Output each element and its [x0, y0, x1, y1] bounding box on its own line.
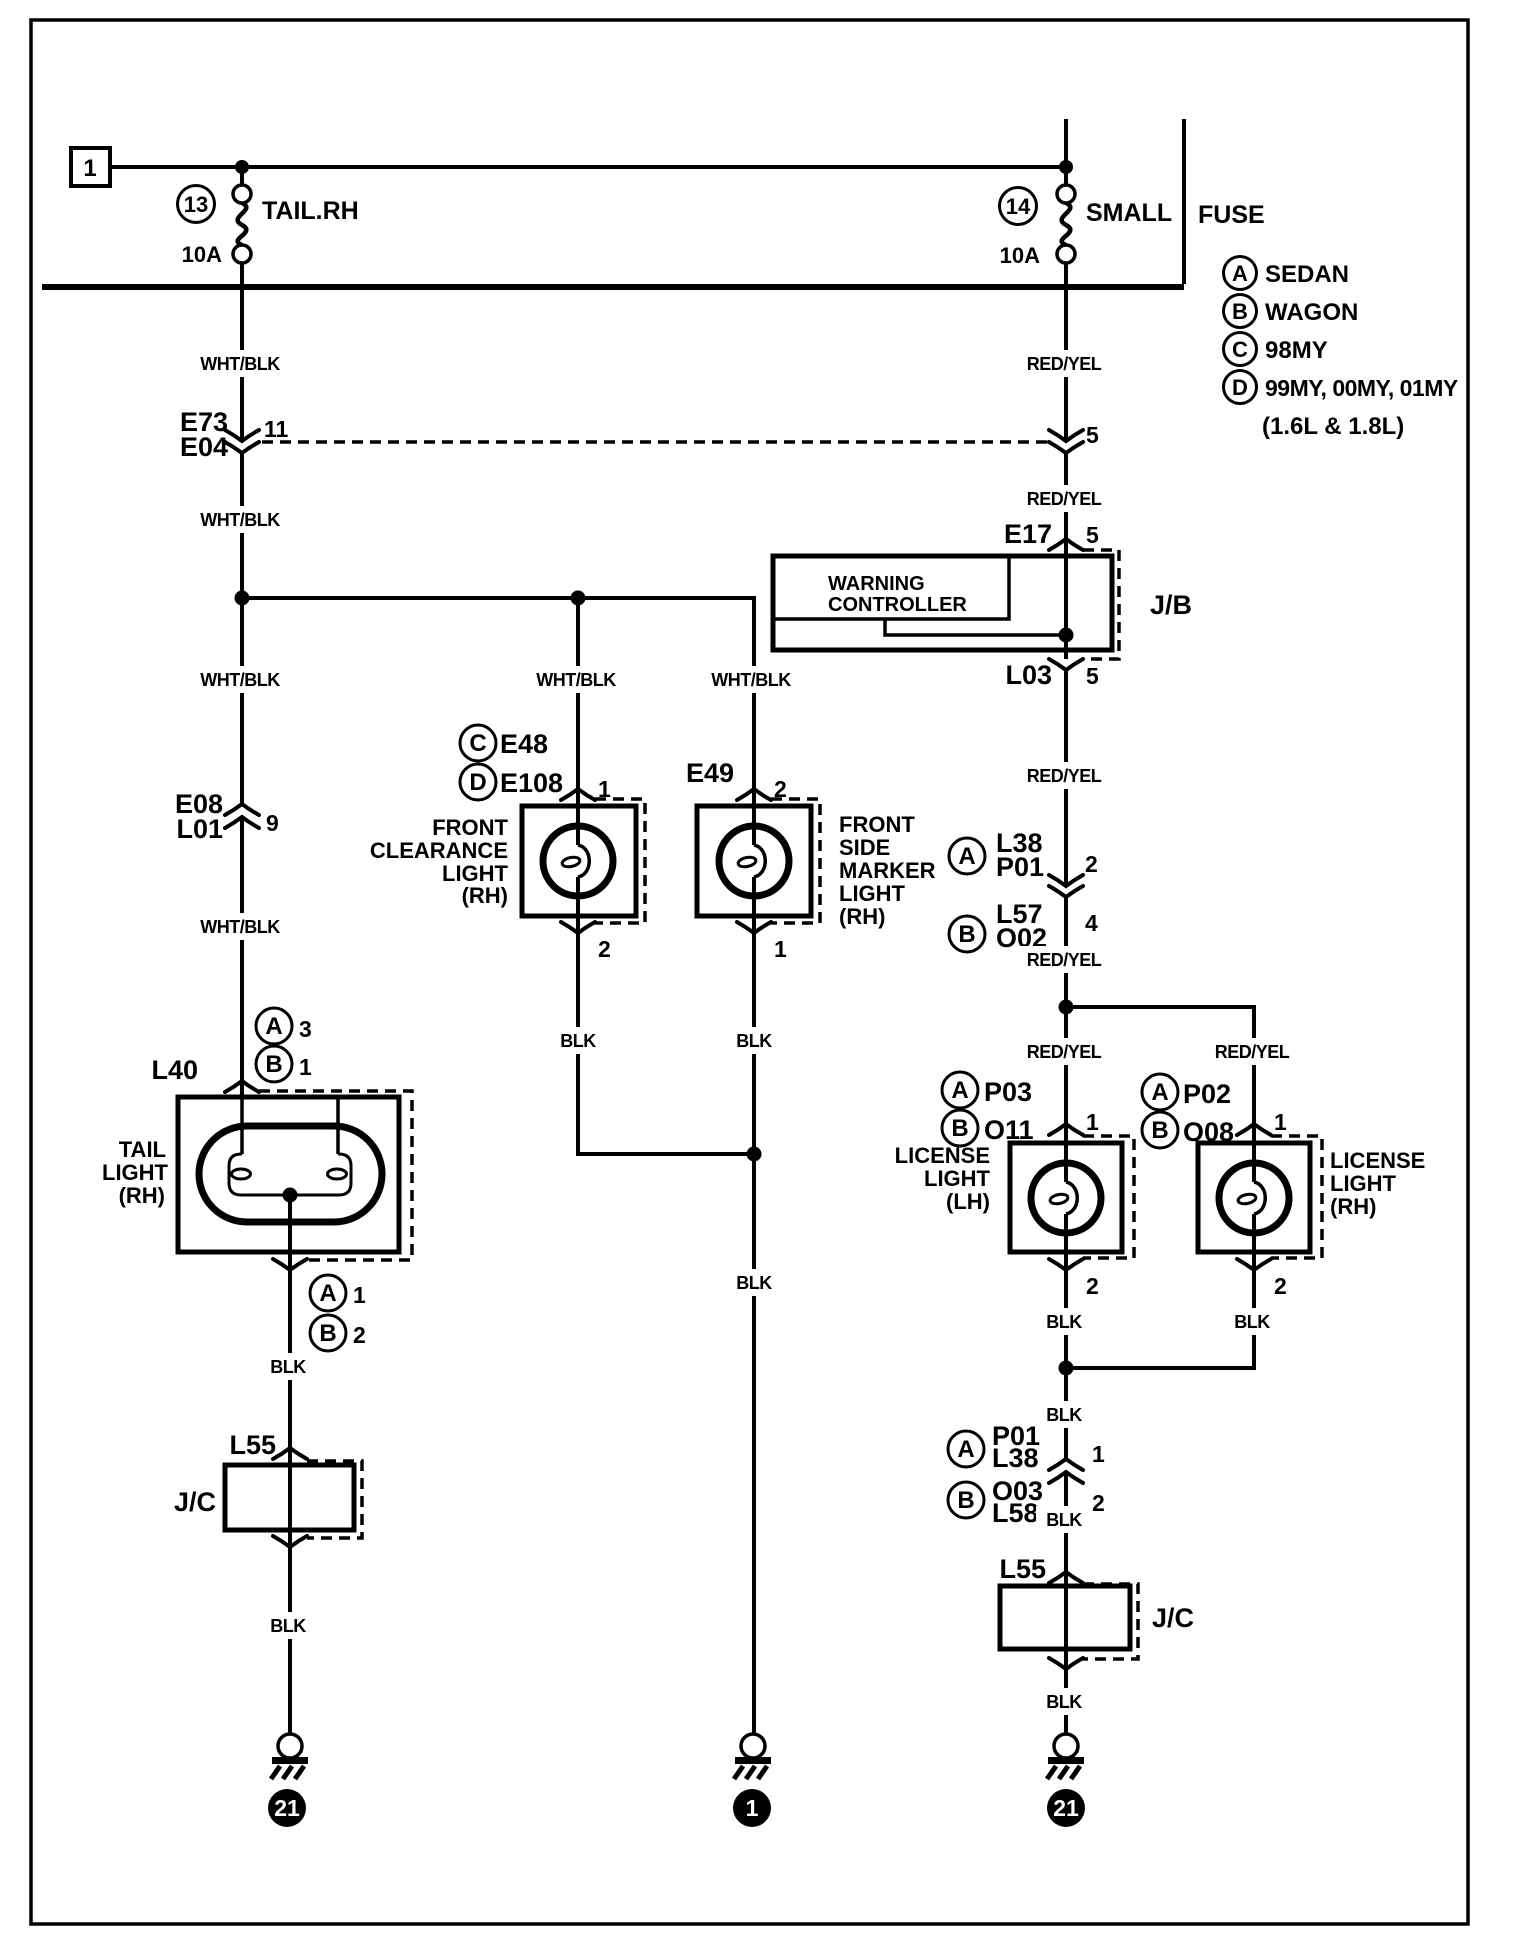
front clearance light (RH) housing [522, 806, 636, 916]
svg-text:5: 5 [1086, 663, 1099, 689]
svg-text:L55: L55 [999, 1554, 1046, 1584]
svg-text:BLK: BLK [270, 1357, 306, 1377]
svg-text:SIDE: SIDE [839, 835, 890, 860]
svg-text:BLK: BLK [1234, 1312, 1270, 1332]
wire: to front side marker light [752, 661, 756, 845]
fuse 13 TAIL.RH 10A [240, 167, 244, 185]
legend C 98MY [1224, 333, 1257, 366]
svg-text:SEDAN: SEDAN [1265, 261, 1349, 288]
bulb pin 1 [240, 1097, 244, 1154]
svg-text:J/C: J/C [1152, 1603, 1194, 1633]
svg-text:RED/YEL: RED/YEL [1027, 354, 1102, 374]
fuse box bus bar [42, 284, 1184, 290]
svg-text:2: 2 [1092, 1490, 1105, 1516]
svg-text:FRONT: FRONT [839, 812, 915, 837]
svg-text:L40: L40 [151, 1055, 198, 1085]
svg-text:LICENSE: LICENSE [1330, 1148, 1425, 1173]
svg-text:C: C [469, 730, 486, 757]
wire color label WHT/BLK [708, 666, 794, 693]
wire color label BLK [1224, 1308, 1280, 1335]
wire color label WHT/BLK [197, 913, 283, 940]
svg-text:D: D [1232, 375, 1248, 400]
wire: stub above fuse 14 [1064, 119, 1068, 167]
license light RH bulb [1219, 1163, 1289, 1233]
wire color label WHT/BLK [197, 666, 283, 693]
svg-text:FUSE: FUSE [1198, 201, 1265, 229]
svg-text:J/C: J/C [174, 1487, 216, 1517]
junction: license lights split [1059, 1000, 1074, 1015]
bulb pin 2 [336, 1097, 340, 1154]
svg-text:1: 1 [1086, 1109, 1099, 1135]
svg-text:5: 5 [1086, 422, 1099, 448]
svg-text:1: 1 [299, 1054, 312, 1080]
wire color label WHT/BLK [197, 350, 283, 377]
wire: joined license grounds, BLK [1064, 1368, 1068, 1459]
svg-text:B: B [319, 1320, 336, 1347]
svg-text:(1.6L & 1.8L): (1.6L & 1.8L) [1262, 413, 1404, 440]
wire: J/C to ground, BLK [288, 1547, 292, 1734]
svg-text:B: B [957, 1487, 974, 1514]
joint connector J/C (left) [225, 1465, 354, 1530]
svg-text:P01: P01 [996, 852, 1044, 882]
svg-text:WAGON: WAGON [1265, 299, 1358, 326]
ground id 1 [733, 1789, 771, 1827]
wire: right J/C to ground, BLK [1064, 1669, 1068, 1734]
svg-text:RED/YEL: RED/YEL [1027, 1042, 1102, 1062]
svg-text:B: B [265, 1051, 282, 1078]
svg-text:A: A [265, 1013, 282, 1040]
svg-text:LIGHT: LIGHT [924, 1166, 991, 1191]
svg-text:1: 1 [746, 1795, 759, 1821]
svg-text:WHT/BLK: WHT/BLK [200, 917, 280, 937]
svg-text:C: C [1232, 337, 1248, 362]
ground id 21 (right) [1047, 1789, 1085, 1827]
svg-text:BLK: BLK [1046, 1510, 1082, 1530]
svg-text:CLEARANCE: CLEARANCE [370, 838, 508, 863]
wire: to license light branch, RED/YEL [1064, 897, 1068, 1182]
bulb filament body [229, 1154, 351, 1195]
svg-text:9: 9 [266, 810, 279, 836]
svg-text:BLK: BLK [1046, 1312, 1082, 1332]
wire: clearance light to ground join, BLK [578, 933, 754, 1154]
svg-text:3: 3 [299, 1016, 312, 1042]
wire: fuse13 to connector E73/E04, WHT/BLK [240, 287, 244, 440]
node 1 (power feed box) [71, 148, 110, 186]
svg-text:2: 2 [1274, 1273, 1287, 1299]
license RH pin 2 [1252, 1214, 1256, 1270]
wire: branch to front clearance light, WHT/BLK [576, 598, 580, 845]
svg-text:P03: P03 [984, 1077, 1032, 1107]
svg-text:(RH): (RH) [1330, 1194, 1376, 1219]
svg-text:D: D [469, 769, 486, 796]
svg-text:BLK: BLK [736, 1273, 772, 1293]
svg-text:1: 1 [353, 1282, 366, 1308]
svg-text:10A: 10A [182, 242, 222, 267]
connector E08/L01 pin 9 [225, 804, 259, 815]
svg-text:LICENSE: LICENSE [895, 1143, 990, 1168]
svg-text:SMALL: SMALL [1086, 199, 1172, 227]
svg-text:RED/YEL: RED/YEL [1215, 1042, 1290, 1062]
wire color label RED/YEL [1021, 350, 1107, 377]
wire color label BLK [726, 1027, 782, 1054]
pin variant A1 [310, 1275, 346, 1311]
wire color label BLK [1036, 1308, 1092, 1335]
license light (RH) housing [1198, 1143, 1310, 1252]
connector E73/E04 pin 11 [225, 430, 259, 441]
svg-text:TAIL.RH: TAIL.RH [262, 197, 359, 225]
wire: L03 to L38/P01, RED/YEL [1064, 670, 1068, 886]
svg-text:L55: L55 [229, 1430, 276, 1460]
svg-text:1: 1 [1274, 1109, 1287, 1135]
svg-text:FRONT: FRONT [432, 815, 508, 840]
J/B dashed boundary [1083, 550, 1119, 659]
junction: tail light column branch [235, 591, 250, 606]
svg-text:LIGHT: LIGHT [839, 881, 906, 906]
legend A SEDAN [1224, 257, 1257, 290]
svg-text:LIGHT: LIGHT [1330, 1171, 1397, 1196]
wire through right J/C [1064, 1572, 1068, 1669]
svg-text:2: 2 [1085, 851, 1098, 877]
wire color label RED/YEL [1021, 1038, 1107, 1065]
svg-text:LIGHT: LIGHT [102, 1160, 169, 1185]
clearance light pin 1 [561, 789, 595, 800]
wire: branch to license light RH [1066, 1007, 1254, 1182]
svg-text:(LH): (LH) [946, 1189, 990, 1214]
connector E108 (99-01MY) [460, 764, 496, 800]
wire: fuse14 down, RED/YEL [1064, 287, 1068, 441]
wire: E08/L01 to tail light, WHT/BLK [240, 817, 244, 1097]
ground id 21 [268, 1789, 306, 1827]
connector A:P02 B:O08 pin 1 (license RH) [1142, 1074, 1178, 1110]
svg-text:CONTROLLER: CONTROLLER [828, 594, 967, 616]
tail light dual-filament bulb [199, 1126, 382, 1222]
svg-text:E48: E48 [500, 729, 548, 759]
junction: clearance light tap [571, 591, 586, 606]
connector A:P03 B:O11 pin 1 (license LH) [942, 1072, 978, 1108]
wire color label BLK [550, 1027, 606, 1054]
junction at fuse 14 tap [1059, 160, 1073, 174]
wire: bulb common out of housing [288, 1195, 292, 1270]
svg-text:1: 1 [83, 155, 96, 182]
svg-text:BLK: BLK [270, 1616, 306, 1636]
svg-text:21: 21 [1053, 1795, 1079, 1821]
ground (license circuit) [1054, 1734, 1078, 1758]
svg-text:E04: E04 [180, 432, 228, 462]
svg-text:2: 2 [353, 1322, 366, 1348]
junction box J/B [773, 556, 1112, 650]
wire color label RED/YEL [1021, 946, 1107, 973]
wire: branch to front lights columns [242, 598, 754, 661]
svg-text:1: 1 [1092, 1441, 1105, 1467]
svg-text:21: 21 [274, 1795, 300, 1821]
warning controller block [773, 556, 1009, 619]
svg-text:99MY, 00MY, 01MY: 99MY, 00MY, 01MY [1265, 375, 1458, 401]
svg-text:B: B [958, 921, 975, 948]
svg-text:A: A [958, 843, 975, 870]
wire: to L55 J/C, BLK [1064, 1473, 1068, 1572]
license light (LH) housing [1010, 1143, 1122, 1252]
wire: feed bus from node 1 to fuse 14 [110, 165, 1066, 169]
svg-text:P02: P02 [1183, 1079, 1231, 1109]
svg-text:WHT/BLK: WHT/BLK [536, 670, 616, 690]
svg-text:WHT/BLK: WHT/BLK [200, 670, 280, 690]
wire: license LH to join, BLK [1064, 1270, 1068, 1459]
svg-text:E17: E17 [1004, 519, 1052, 549]
svg-text:L58: L58 [992, 1498, 1039, 1528]
svg-text:A: A [951, 1077, 968, 1104]
fuse box bracket [1182, 119, 1186, 284]
tail light output pin chevron [273, 1259, 307, 1270]
svg-text:(RH): (RH) [119, 1183, 165, 1208]
wire: side marker to ground, BLK [752, 933, 756, 1734]
junction inside J/B [1059, 628, 1074, 643]
ground (tail light circuit) [278, 1734, 302, 1758]
svg-text:WHT/BLK: WHT/BLK [200, 510, 280, 530]
wire color label BLK [1036, 1401, 1092, 1428]
svg-text:RED/YEL: RED/YEL [1027, 950, 1102, 970]
dashed harness tie line E73/E04 to right connector [262, 440, 1048, 444]
svg-text:14: 14 [1006, 194, 1031, 219]
svg-text:4: 4 [1085, 910, 1098, 936]
svg-text:B: B [951, 1115, 968, 1142]
pin variant B2 [310, 1315, 346, 1351]
junction: license grounds join [1059, 1361, 1074, 1376]
svg-text:TAIL: TAIL [119, 1137, 166, 1162]
license light LH bulb [1031, 1163, 1101, 1233]
wire color label RED/YEL [1209, 1038, 1295, 1065]
wire through J/C [288, 1448, 292, 1547]
svg-text:BLK: BLK [1046, 1405, 1082, 1425]
svg-text:RED/YEL: RED/YEL [1027, 766, 1102, 786]
svg-text:MARKER: MARKER [839, 858, 936, 883]
svg-text:1: 1 [774, 936, 787, 962]
svg-text:2: 2 [1086, 1273, 1099, 1299]
svg-text:10A: 10A [1000, 243, 1040, 268]
connector (E73/E04) pin 5 right side [1049, 430, 1083, 441]
bulb common junction [283, 1188, 298, 1203]
svg-text:98MY: 98MY [1265, 337, 1328, 364]
wire: license RH to join, BLK [1066, 1270, 1254, 1368]
ground (front lights) [741, 1734, 765, 1758]
svg-text:WARNING: WARNING [828, 573, 925, 595]
side marker pin 1 [752, 877, 756, 933]
svg-text:B: B [1151, 1117, 1168, 1144]
svg-text:A: A [319, 1280, 336, 1307]
tail light (RH) housing [178, 1097, 399, 1252]
svg-text:2: 2 [598, 936, 611, 962]
wire color label WHT/BLK [197, 506, 283, 533]
svg-text:13: 13 [184, 192, 208, 217]
wire: E73/E04 to branch node, WHT/BLK [240, 453, 244, 598]
svg-text:A: A [1151, 1079, 1168, 1106]
wire: to J/B E17, RED/YEL [1064, 453, 1068, 659]
wire color label BLK [260, 1353, 316, 1380]
connector A:L38/P01 pin2, B:L57/O02 pin4 [949, 838, 985, 874]
svg-text:J/B: J/B [1150, 590, 1192, 620]
junction at fuse 13 tap [235, 160, 249, 174]
svg-text:A: A [1232, 261, 1248, 286]
svg-text:WHT/BLK: WHT/BLK [200, 354, 280, 374]
connector A:P01/L38 pin1, B:O03/L58 pin2 [948, 1431, 984, 1467]
svg-text:WHT/BLK: WHT/BLK [711, 670, 791, 690]
clearance light pin 2 [576, 877, 580, 933]
legend D 99MY [1224, 371, 1257, 404]
front side marker light (RH) housing [697, 806, 811, 916]
junction: clearance + side marker grounds [747, 1147, 762, 1162]
connector E48 (98MY) [460, 725, 496, 761]
wire color label WHT/BLK [533, 666, 619, 693]
svg-text:A: A [957, 1436, 974, 1463]
svg-text:11: 11 [264, 416, 289, 442]
svg-text:RED/YEL: RED/YEL [1027, 489, 1102, 509]
pin variant A3 (sedan) [256, 1008, 292, 1044]
wire color label BLK [1036, 1506, 1092, 1533]
svg-text:5: 5 [1086, 522, 1099, 548]
front clearance light bulb [543, 826, 613, 896]
svg-text:(RH): (RH) [839, 904, 885, 929]
wire: branch node down to connector E08/L01, WHT/BLK [240, 598, 244, 804]
svg-text:BLK: BLK [560, 1031, 596, 1051]
svg-text:BLK: BLK [1046, 1692, 1082, 1712]
license LH pin 2 [1064, 1214, 1068, 1270]
wire color label BLK [1036, 1688, 1092, 1715]
wire color label RED/YEL [1021, 762, 1107, 789]
svg-text:BLK: BLK [736, 1031, 772, 1051]
front side marker light bulb [719, 826, 789, 896]
svg-text:L01: L01 [176, 814, 223, 844]
svg-text:(RH): (RH) [462, 883, 508, 908]
svg-text:L03: L03 [1005, 660, 1052, 690]
svg-text:L38: L38 [992, 1443, 1039, 1473]
wire: warning controller tap inside J/B [885, 619, 1060, 635]
svg-text:E108: E108 [500, 768, 563, 798]
wire: tail light to J/C L55, BLK [288, 1270, 292, 1448]
svg-text:B: B [1232, 299, 1248, 324]
wire color label BLK [260, 1612, 316, 1639]
fuse 14 SMALL 10A [1064, 167, 1068, 185]
svg-text:E49: E49 [686, 758, 734, 788]
wire color label RED/YEL [1021, 485, 1107, 512]
tail light dashed connector outline [259, 1091, 412, 1260]
pin variant B1 (wagon) [256, 1046, 292, 1082]
wire color label BLK [726, 1269, 782, 1296]
legend B WAGON [1224, 295, 1257, 328]
joint connector J/C (right) [1000, 1586, 1130, 1649]
